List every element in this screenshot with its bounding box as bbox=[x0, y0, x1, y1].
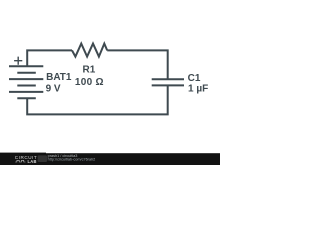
battery BAT1 short plate 2 bbox=[17, 85, 36, 87]
battery BAT1 long plate 2 bbox=[9, 78, 43, 80]
svg-text:100 Ω: 100 Ω bbox=[75, 77, 104, 88]
wire: resistor to top-right corner down to capacitor top bbox=[107, 50, 168, 79]
wire: battery positive lead up and across top to resistor bbox=[27, 50, 72, 66]
wire: capacitor bottom, bottom rail, up to battery negative bbox=[27, 85, 168, 114]
battery BAT1 long plate 3 bbox=[9, 91, 43, 93]
svg-text:1 µF: 1 µF bbox=[188, 83, 208, 94]
svg-text:BAT1: BAT1 bbox=[46, 72, 72, 83]
battery BAT1 short plate 3 (negative) bbox=[17, 97, 36, 99]
capacitor C1 top plate bbox=[152, 78, 184, 80]
CircuitLab logo icon box bbox=[38, 155, 47, 162]
CircuitLab logo waveform glyph bbox=[15, 160, 25, 162]
battery BAT1 short plate 1 bbox=[17, 72, 36, 74]
battery BAT1 long plate 1 (positive) bbox=[9, 65, 43, 67]
footer black bar bbox=[0, 153, 220, 165]
svg-text:R1: R1 bbox=[83, 65, 96, 76]
resistor R1 zigzag bbox=[72, 44, 107, 57]
capacitor C1 bottom plate bbox=[152, 84, 184, 86]
svg-text:LAB: LAB bbox=[28, 159, 37, 164]
svg-text:http://circuitlab-com/c76rah2: http://circuitlab-com/c76rah2 bbox=[48, 158, 96, 162]
svg-text:9 V: 9 V bbox=[46, 84, 61, 95]
battery plus sign bbox=[14, 57, 22, 65]
